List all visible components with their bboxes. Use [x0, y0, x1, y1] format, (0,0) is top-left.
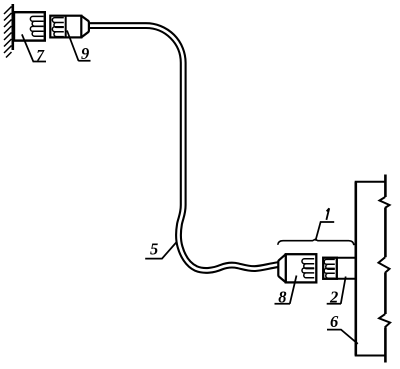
svg-text:6: 6 — [330, 312, 339, 331]
svg-text:8: 8 — [278, 287, 286, 306]
svg-text:9: 9 — [81, 44, 89, 63]
svg-text:5: 5 — [150, 239, 158, 258]
svg-text:7: 7 — [36, 48, 45, 65]
svg-text:2: 2 — [329, 287, 338, 306]
